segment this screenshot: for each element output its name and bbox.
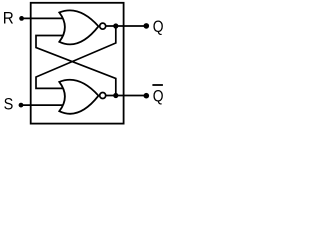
wire feedback from Qbar junction to upper NOR lower input [36, 36, 116, 96]
svg-text:Q: Q [153, 86, 164, 105]
node Qbar junction dot [113, 93, 118, 98]
enclosure box [31, 3, 124, 124]
wire S input [21, 104, 66, 106]
node Q terminal dot [144, 23, 150, 29]
wire R input [22, 17, 67, 19]
nor-gate G2 body (lower) [59, 80, 98, 114]
nor-gate G1 body (upper) [59, 10, 98, 44]
wire feedback from Q junction to lower NOR upper input [36, 26, 116, 88]
svg-text:R: R [3, 8, 14, 27]
label Qbar overline [152, 84, 163, 86]
wire Qbar output [106, 95, 146, 97]
svg-text:Q: Q [153, 17, 164, 36]
nor-gate G1 output bubble [100, 23, 106, 29]
node Qbar terminal dot [144, 93, 150, 99]
wire Q output [106, 25, 146, 27]
node R terminal dot [19, 16, 24, 21]
node S terminal dot [19, 103, 24, 108]
svg-text:S: S [4, 95, 14, 114]
node Q junction dot [113, 23, 118, 28]
nor-gate G2 output bubble [100, 93, 106, 99]
